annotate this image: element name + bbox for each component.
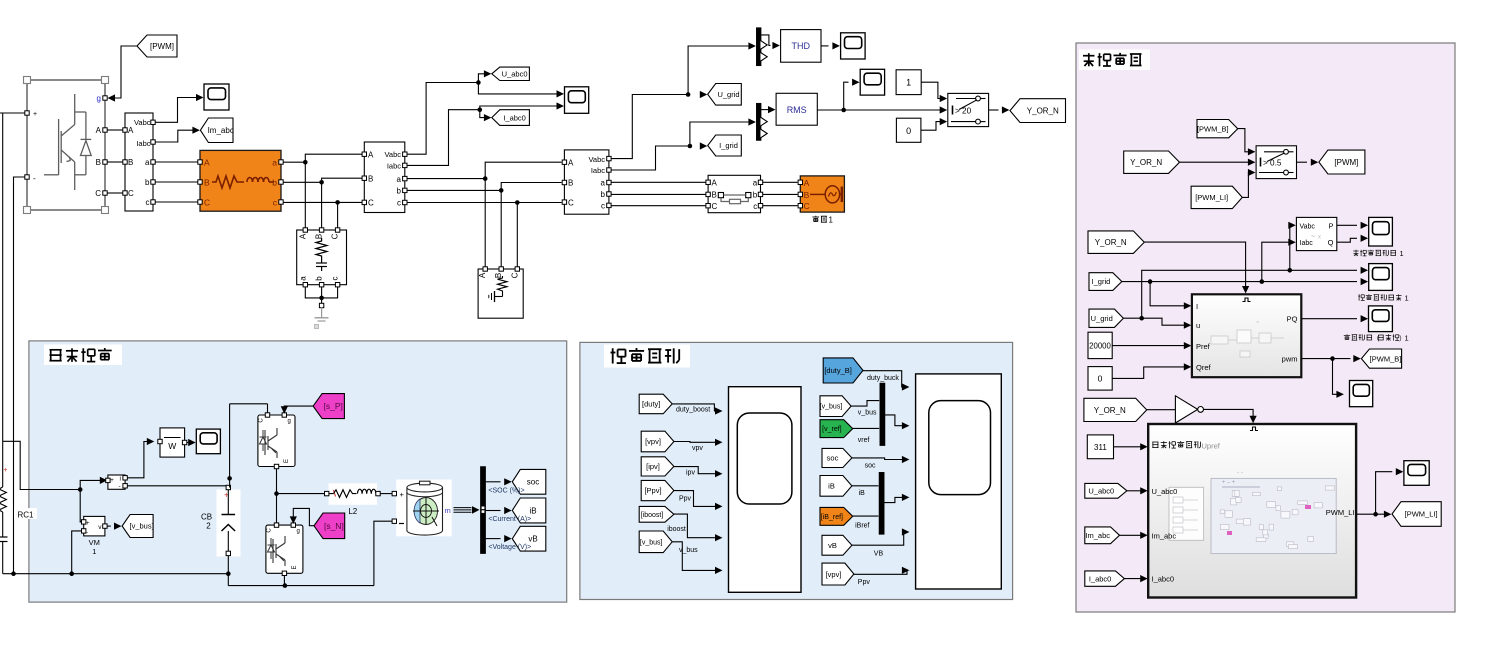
- svg-text:v_bus: v_bus: [679, 547, 698, 554]
- svg-text:vB: vB: [528, 535, 537, 544]
- From tag [iB_ref] orange: [820, 507, 853, 525]
- wire measurement2 a to measurement3 A: [407, 162, 562, 181]
- goto tag vB: [512, 526, 546, 551]
- label instantaneous grid power 1: [1353, 249, 1403, 258]
- From tag Im_abc: [1085, 527, 1120, 544]
- svg-text:vB: vB: [828, 541, 837, 550]
- wire duty to boost scope in1 with label duty_boost: [672, 404, 722, 415]
- svg-text:C: C: [712, 202, 718, 211]
- svg-text:Pref: Pref: [1196, 342, 1211, 351]
- wire signal block to scope: [187, 439, 196, 446]
- svg-text:RC1: RC1: [18, 511, 35, 520]
- wire switch to goto [PWM]: [1297, 159, 1319, 166]
- svg-text:a: a: [145, 158, 150, 167]
- selector block 2 (RMS input): [756, 103, 767, 140]
- svg-text:<Voltage (V)>: <Voltage (V)>: [488, 544, 531, 551]
- current measurement block i: [106, 475, 128, 490]
- goto tag I_grid: [708, 135, 742, 156]
- svg-text:B: B: [712, 191, 717, 200]
- goto tag iB: [512, 498, 546, 523]
- svg-text:Y_OR_N: Y_OR_N: [1027, 107, 1059, 116]
- svg-text:g: g: [288, 419, 291, 425]
- mux bar 2 (iB, iBref): [879, 472, 884, 534]
- svg-text:[PWM]: [PWM]: [150, 42, 174, 51]
- svg-text:[PWM]: [PWM]: [1334, 158, 1358, 167]
- wire measurement3 a to breaker A: [611, 181, 706, 183]
- svg-text:C: C: [267, 528, 273, 533]
- wire I_grid to PQ subsystem I input / Iabc / scope: [1122, 239, 1368, 310]
- goto tag I_abc0: [492, 110, 530, 126]
- svg-text:RMS: RMS: [787, 105, 807, 115]
- wire 0 to Qref: [1112, 363, 1191, 378]
- wire DC- rail from bridge - down to storage bottom rail: [14, 177, 26, 574]
- svg-text:c: c: [753, 202, 757, 211]
- svg-text:Q: Q: [1328, 238, 1334, 247]
- constant 20000: [1088, 332, 1112, 358]
- svg-text:U_grid: U_grid: [1091, 314, 1113, 323]
- svg-text:A: A: [568, 158, 574, 167]
- svg-text:C: C: [95, 189, 101, 198]
- svg-text:0: 0: [1098, 374, 1103, 384]
- svg-text:[iboost]: [iboost]: [641, 512, 664, 519]
- wire measurement3 Iabc up to I_grid / selector2: [611, 118, 756, 170]
- svg-text:c: c: [601, 202, 605, 211]
- svg-text:> 0.5: > 0.5: [1263, 158, 1282, 167]
- svg-text:U_abc0: U_abc0: [502, 70, 528, 79]
- grid source block (orange): [798, 176, 844, 212]
- wires RC load to ground: [305, 287, 337, 306]
- three-phase series RL branch (orange): [198, 150, 283, 211]
- constant 0: [896, 118, 921, 142]
- svg-text:vref: vref: [858, 437, 870, 444]
- THD block: [781, 30, 821, 63]
- svg-text:vpv: vpv: [692, 445, 703, 452]
- wire measurement2 Vabc to U_abc0 and scope: [407, 70, 564, 154]
- boost scope (large): [729, 387, 802, 593]
- svg-text:[PWM_LI]: [PWM_LI]: [1195, 193, 1228, 202]
- svg-text:+: +: [86, 521, 90, 527]
- wire bridge A to measurement1 A: [108, 129, 123, 131]
- svg-text:PQ: PQ: [1287, 315, 1298, 324]
- svg-text:B: B: [204, 177, 210, 187]
- scope RMS: [860, 69, 884, 95]
- wire VM to v_bus goto: [107, 523, 121, 530]
- wire THD to scope: [821, 42, 840, 49]
- From tag [Ppv]: [641, 480, 674, 500]
- svg-text:b: b: [315, 276, 324, 281]
- svg-text:a: a: [272, 157, 277, 167]
- wire measurement2 c to measurement3 C: [407, 200, 562, 205]
- constant 0 (Qref): [1088, 367, 1112, 391]
- wire measurement1 a to RL filter A: [155, 161, 198, 163]
- svg-text:v_bus: v_bus: [858, 410, 877, 417]
- svg-text:[ipv]: [ipv]: [646, 462, 660, 471]
- goto tag Y_OR_N: [1010, 99, 1066, 123]
- svg-text:a: a: [601, 179, 606, 188]
- svg-text:Iabc: Iabc: [591, 166, 605, 175]
- wire bridge C to measurement1 C: [108, 192, 123, 194]
- svg-text:Upref: Upref: [1202, 442, 1221, 451]
- grid label: [812, 216, 833, 225]
- PQ control subsystem (triggered): [1192, 294, 1301, 377]
- svg-text:A: A: [804, 178, 810, 188]
- scope pwm_B: [1350, 381, 1373, 407]
- From tag [vpv]: [641, 431, 674, 452]
- three-phase breaker block: [706, 175, 763, 212]
- scope Vabc inverter: [204, 84, 229, 110]
- svg-text:Vabc: Vabc: [588, 155, 605, 164]
- svg-text:[v_bus]: [v_bus]: [640, 539, 663, 546]
- svg-text:[v_bus]: [v_bus]: [130, 522, 154, 531]
- svg-text:c: c: [397, 199, 401, 208]
- wire pwm to [PWM_B] goto and scope: [1301, 355, 1361, 398]
- svg-text:Vabc: Vabc: [134, 118, 151, 127]
- From tag Y_OR_N to NOT gate: [1084, 398, 1147, 421]
- svg-text:+: +: [3, 467, 7, 474]
- From tag [v_ref] green: [820, 420, 853, 438]
- svg-text:C: C: [331, 233, 340, 239]
- wire iboost to boost scope in5: [667, 514, 722, 541]
- From tag U_abc0: [1085, 483, 1127, 498]
- From tag soc: [822, 448, 852, 467]
- goto tag [s_N] magenta wire: [290, 508, 314, 525]
- buck scope (large): [916, 374, 1002, 589]
- From tag Y_OR_N to power trigger: [1088, 231, 1144, 254]
- wire duty_B to buck scope in1: [863, 371, 909, 391]
- scope U/I abc0: [565, 87, 589, 114]
- label grid power filtered 1: [1344, 334, 1409, 343]
- wire constant0 to switch: [921, 118, 947, 130]
- svg-text:soc: soc: [527, 478, 539, 487]
- svg-text:A: A: [204, 157, 210, 167]
- three-phase parallel RLC load (grounded): [478, 267, 523, 318]
- From tag vB: [822, 535, 852, 555]
- wire v_bus to mux1: [851, 401, 879, 417]
- svg-text:E: E: [284, 459, 290, 463]
- svg-text:Iabc: Iabc: [136, 139, 150, 148]
- svg-text:C: C: [510, 272, 519, 278]
- svg-text:[s_P]: [s_P]: [324, 401, 343, 411]
- svg-text:[PWM_LI]: [PWM_LI]: [1405, 510, 1438, 519]
- svg-text:1: 1: [906, 77, 911, 87]
- wire demux vB: [486, 535, 512, 542]
- scope instantaneous grid power: [1369, 217, 1393, 246]
- wire measurement1 c to RL filter C: [155, 201, 198, 203]
- svg-text:Ppv: Ppv: [858, 579, 871, 586]
- wire ipv to boost scope in3: [674, 467, 723, 478]
- universal bridge (inverter) U1: [24, 77, 109, 214]
- wire iB_ref to mux2: [853, 516, 879, 529]
- svg-text:VB: VB: [874, 550, 884, 557]
- wire I_abc0 to subsystem: [1124, 575, 1147, 582]
- wire mux2 to buck scope in4: [884, 494, 909, 503]
- goto tag [PWM]: [1319, 150, 1365, 174]
- svg-text:1: 1: [829, 216, 834, 225]
- goto tag U_grid: [708, 84, 742, 106]
- svg-text:Y_OR_N: Y_OR_N: [1094, 406, 1126, 415]
- wire vB to buck scope in5: [852, 528, 910, 557]
- wire RL c to measurement2 C: [283, 200, 362, 205]
- svg-text:C: C: [804, 201, 810, 211]
- From tag Y_OR_N switch input: [1124, 151, 1180, 173]
- svg-text:-: -: [86, 529, 88, 536]
- wire Y_OR_N to switch input 2: [1180, 159, 1256, 166]
- battery block: [392, 480, 452, 537]
- wire PWM_LI to goto and scope: [1356, 468, 1403, 518]
- svg-text:C: C: [259, 418, 265, 423]
- wire capacitor top to IGBT1 collector: [227, 404, 267, 488]
- svg-text:[PWM_B]: [PWM_B]: [1370, 354, 1402, 363]
- From tag [PWM] (mirrored): [137, 35, 177, 57]
- svg-text:P: P: [1328, 221, 1333, 230]
- wire RL a to measurement2 A: [283, 154, 362, 164]
- svg-text:A: A: [96, 126, 102, 135]
- svg-text:311: 311: [1094, 443, 1107, 452]
- wire branches down to parallel load: [485, 179, 517, 267]
- svg-text:W: W: [168, 441, 176, 451]
- wire RC1 top to current measurement: [3, 441, 108, 522]
- svg-text:B: B: [804, 190, 810, 200]
- panel: measurement section area: [580, 342, 1013, 599]
- svg-text:Iabc: Iabc: [1300, 240, 1314, 247]
- From tag [iboost]: [639, 506, 674, 522]
- svg-text:i: i: [120, 475, 121, 482]
- svg-text:iB: iB: [828, 482, 835, 491]
- wire measurement3 c to breaker C: [611, 205, 706, 207]
- svg-text:L2: L2: [348, 507, 357, 516]
- svg-text:B: B: [315, 234, 324, 239]
- three-phase V-I measurement 3: [562, 150, 611, 214]
- label L2: [348, 507, 357, 516]
- svg-text:A: A: [368, 150, 374, 159]
- svg-text:A: A: [298, 233, 307, 239]
- wire battery - to bottom rail: [374, 521, 392, 585]
- scope THD: [841, 33, 866, 59]
- goto tag [v_bus]: [122, 515, 154, 538]
- svg-text:Y_OR_N: Y_OR_N: [1095, 238, 1127, 247]
- From tag [v_bus] measurement: [639, 531, 672, 553]
- svg-text:Im_abc: Im_abc: [1152, 531, 1177, 540]
- storage bottom rail: [3, 531, 374, 588]
- wire midpoint down to IGBT2 collector: [276, 494, 278, 523]
- svg-text:[iB_ref]: [iB_ref]: [821, 514, 843, 521]
- svg-text:-: -: [119, 483, 121, 490]
- svg-text:C: C: [128, 189, 134, 198]
- wire switch to Y_OR_N goto: [989, 106, 1010, 113]
- svg-text:U_abc0: U_abc0: [1088, 487, 1114, 496]
- svg-text:+: +: [33, 111, 37, 118]
- svg-text:A: A: [712, 179, 718, 188]
- wire midpoint to L2: [277, 493, 325, 495]
- goto tag [PWM_LI]: [1392, 502, 1441, 527]
- svg-text:B: B: [128, 158, 133, 167]
- svg-text:Vabc: Vabc: [1300, 223, 1316, 230]
- voltage measurement VM 1: [82, 516, 108, 536]
- logical NOT gate: [1147, 396, 1204, 423]
- From tag [PWM_B] top: [1197, 120, 1238, 138]
- ground symbol (grayed): [315, 303, 329, 328]
- svg-text:C: C: [368, 199, 374, 208]
- svg-text:VM: VM: [89, 538, 100, 547]
- wire Ppv to boost scope in4: [674, 491, 723, 510]
- panel: control switching area: [1076, 43, 1455, 612]
- three-phase series RC load block: [297, 228, 347, 287]
- RC snubber branch RC1 (left edge): [0, 441, 37, 573]
- svg-text:iBref: iBref: [855, 522, 869, 529]
- svg-text:+: +: [110, 478, 114, 484]
- wire measurement1 Vabc to scope: [155, 94, 204, 122]
- svg-text:C: C: [568, 198, 574, 207]
- svg-text:THD: THD: [792, 41, 811, 51]
- wire RL b to measurement2 B: [283, 178, 362, 184]
- svg-text:g: g: [297, 529, 300, 535]
- signal filter block (mean): [158, 428, 187, 457]
- svg-text:[vpv]: [vpv]: [826, 570, 842, 579]
- svg-text:Ppv: Ppv: [679, 495, 692, 502]
- LI inverter control subsystem (triggered): [1148, 424, 1356, 598]
- svg-text:~: ~: [1311, 234, 1315, 241]
- wire measurement3 b to breaker B: [611, 193, 706, 195]
- scope grid power filtered: [1369, 306, 1393, 332]
- svg-text:I_grid: I_grid: [719, 141, 738, 150]
- svg-text:<SOC (%)>: <SOC (%)>: [488, 487, 524, 494]
- wire v_ref to mux1: [853, 428, 880, 443]
- svg-text:b: b: [397, 187, 402, 196]
- constant 1: [896, 70, 921, 95]
- svg-text:b: b: [145, 178, 150, 187]
- svg-text:1: 1: [92, 547, 96, 556]
- goto tag [PWM_B]: [1361, 349, 1401, 368]
- wire Im_abc to subsystem: [1120, 532, 1148, 539]
- svg-text:iB: iB: [859, 490, 866, 497]
- wire [PWM_LI] to switch input 3: [1242, 169, 1255, 198]
- wire measurement3 Vabc up to U_grid / selector1: [611, 42, 756, 158]
- switch > 20: [948, 93, 989, 126]
- From tag iB: [820, 476, 852, 497]
- svg-text:I_abc0: I_abc0: [503, 113, 526, 122]
- wire U_grid to u input / Vabc / scope: [1123, 222, 1368, 329]
- From tag I_grid: [1089, 273, 1122, 291]
- svg-text:+: +: [400, 490, 405, 499]
- demux bus selector bar: [480, 467, 485, 554]
- three-phase V-I measurement 2: [362, 142, 407, 213]
- svg-text:20000: 20000: [1089, 341, 1111, 350]
- svg-text:- -: - -: [1237, 470, 1243, 476]
- wire iB to mux2: [852, 486, 879, 497]
- goto tag [s_P] magenta: [313, 394, 344, 419]
- svg-text:PWM_LI: PWM_LI: [1326, 508, 1355, 517]
- svg-text:[s_N]: [s_N]: [324, 521, 344, 531]
- wire measurement1 Iabc to Im_abc: [155, 127, 200, 142]
- svg-text:1: 1: [1405, 294, 1409, 303]
- svg-text:x: x: [1318, 235, 1321, 241]
- wire PQ output to filtered power scope: [1301, 315, 1368, 322]
- svg-text:[PWM_B]: [PWM_B]: [1197, 124, 1229, 133]
- wire DC+ rail from bridge + to RC1 branch: [0, 113, 25, 441]
- svg-text:a: a: [753, 179, 758, 188]
- svg-text:CB: CB: [201, 513, 212, 522]
- IGBT1 (buck upper): [258, 413, 295, 469]
- From tag [ipv]: [641, 457, 674, 476]
- wire i output to signal block: [127, 438, 154, 478]
- instantaneous power measurement block: [1296, 217, 1336, 250]
- svg-text:-: -: [33, 174, 36, 183]
- From tag [vpv] buck: [822, 563, 854, 585]
- svg-text:[duty]: [duty]: [642, 400, 660, 409]
- svg-text:+ -- +: + -- +: [1222, 480, 1235, 486]
- wire [PWM_B] to switch input 1: [1238, 129, 1256, 156]
- svg-text:duty_boost: duty_boost: [676, 407, 710, 414]
- svg-text:b: b: [601, 190, 606, 199]
- svg-text:[vpv]: [vpv]: [645, 437, 661, 446]
- svg-text:pwm: pwm: [1282, 355, 1298, 364]
- svg-text:Qref: Qref: [1196, 363, 1212, 372]
- wire U_abc0 to subsystem: [1127, 487, 1148, 494]
- svg-text:c: c: [331, 277, 340, 281]
- RMS block: [776, 93, 817, 125]
- From tag [v_bus] buck: [820, 396, 851, 417]
- svg-text:B: B: [96, 158, 101, 167]
- svg-text:Vabc: Vabc: [384, 150, 401, 159]
- wire L2 to battery +: [380, 493, 392, 495]
- wire [PWM] to bridge g input: [108, 46, 138, 102]
- wire RMS output to scope and switch: [817, 79, 947, 114]
- svg-text:<Current (A)>: <Current (A)>: [488, 516, 531, 523]
- wire i minus to capacitor top: [127, 485, 227, 487]
- svg-text:soc: soc: [827, 454, 839, 463]
- svg-text:Iabc: Iabc: [387, 162, 401, 171]
- svg-text:iboost: iboost: [667, 526, 686, 533]
- wire IGBT1 emitter to midpoint: [274, 469, 279, 496]
- svg-text:C: C: [204, 197, 210, 207]
- svg-text:ipv: ipv: [686, 469, 695, 476]
- svg-text:U_abc0: U_abc0: [1152, 487, 1178, 496]
- wire branch down to RC load A: [304, 162, 306, 228]
- svg-text:soc: soc: [865, 462, 876, 469]
- svg-text:Im_abc: Im_abc: [1085, 531, 1110, 540]
- svg-text:U_grid: U_grid: [717, 90, 739, 99]
- svg-text:=: =: [1256, 320, 1260, 326]
- wire 20000 to Pref: [1112, 342, 1191, 349]
- constant 311: [1087, 435, 1113, 459]
- wire measurement1 b to RL filter B: [155, 181, 198, 183]
- svg-text:[duty_B]: [duty_B]: [824, 366, 852, 375]
- switch > 0.5: [1256, 146, 1296, 179]
- wire selector1 to THD: [761, 35, 780, 49]
- selector block 1 (THD input): [756, 28, 767, 66]
- wire selector2 to RMS: [761, 106, 775, 113]
- wire vpv to buck scope in6: [854, 567, 910, 587]
- wire Y_OR_N down to PQ subsystem trigger: [1144, 242, 1249, 293]
- IGBT2 (buck lower): [266, 523, 303, 576]
- wire measurement2 Iabc to I_abc0 and scope: [407, 102, 564, 165]
- capacitor CB 2: [217, 485, 241, 573]
- label VM 1: [89, 538, 100, 556]
- label CB 2: [201, 513, 212, 531]
- goto tag Im_abc: [200, 118, 233, 143]
- goto tag U_abc0: [492, 67, 530, 80]
- From tag I_abc0: [1085, 571, 1125, 586]
- scope PWM_LI: [1404, 461, 1429, 486]
- svg-text:2: 2: [206, 522, 211, 531]
- svg-text:duty_buck: duty_buck: [867, 375, 899, 382]
- From tag [duty]: [639, 394, 672, 414]
- svg-text:Im_abc: Im_abc: [208, 126, 234, 135]
- svg-text:0: 0: [906, 126, 911, 136]
- svg-text:1: 1: [1400, 249, 1404, 258]
- mux bar 1 (v_bus, vref): [880, 383, 885, 446]
- From tag [PWM_LI]: [1191, 186, 1242, 208]
